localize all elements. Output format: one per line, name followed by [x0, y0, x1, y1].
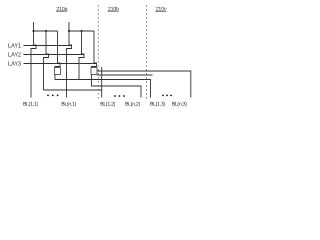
- wire LAY2 line: [24, 54, 85, 56]
- junction dots group1: [32, 30, 34, 32]
- junction dots group2: [68, 30, 70, 32]
- svg-text:BL(1,1): BL(1,1): [23, 101, 38, 107]
- cell box on g2 column3: [91, 68, 97, 75]
- wire LAY3 line: [24, 63, 97, 65]
- svg-text:BL(n,3): BL(n,3): [172, 101, 187, 107]
- wire BL(1,2) vertical: [101, 67, 103, 98]
- svg-text:LAY2: LAY2: [8, 52, 22, 59]
- dashed boundary 210a/210b: [97, 5, 99, 100]
- wire g2 column2: tap at LAY2, down to y79.5 join: [79, 31, 84, 80]
- svg-text:BL(n,2): BL(n,2): [125, 101, 140, 107]
- wire g1 column3: tap at LAY3, down to cell, then right at y79.5 to BL(1,3): [55, 31, 60, 68]
- svg-text:BL(1,2): BL(1,2): [100, 101, 115, 107]
- wire g2 column3: tap at LAY3, down to cell, right at y86 to BL(n,2): [92, 31, 97, 68]
- wire g1 column1: stub, tap at LAY1, down to BL(1,1): [31, 22, 36, 98]
- ellipsis dots 210a: [47, 95, 49, 97]
- wire group1 top bar: [34, 30, 58, 32]
- wire from cell M2 right edge y71 to BL(n,3): [97, 71, 191, 98]
- wire LAY1 line: [24, 45, 72, 47]
- ellipsis dots 210c: [162, 95, 164, 97]
- dashed boundary 210b/210c: [146, 5, 148, 100]
- svg-text:BL(1,3): BL(1,3): [150, 101, 165, 107]
- svg-text:BL(n,1): BL(n,1): [61, 101, 76, 107]
- wire g1 column2: tap at LAY2, down, right at y90 to BL(1,2): [44, 31, 102, 90]
- wire g2 column1: stub, tap at LAY1, down to BL(n,1): [67, 22, 72, 98]
- svg-text:LAY1: LAY1: [8, 43, 22, 50]
- ellipsis dots 210b: [114, 95, 116, 97]
- wire horizontal segment y75 between boundaries: [97, 74, 152, 76]
- cell box on g1 column3: [55, 68, 61, 75]
- svg-text:LAY3: LAY3: [8, 61, 22, 68]
- wire group2 top bar: [69, 30, 94, 32]
